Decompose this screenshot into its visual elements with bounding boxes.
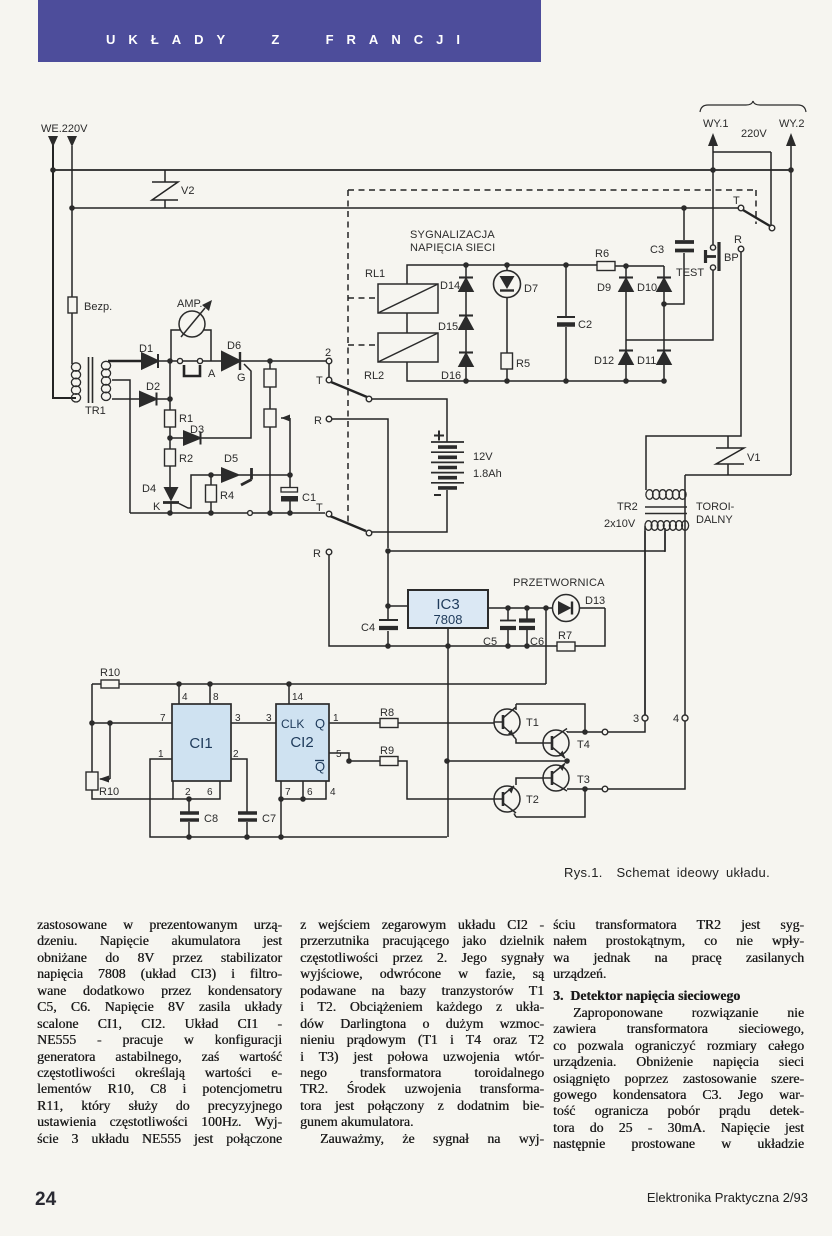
svg-text:D5: D5: [224, 453, 238, 465]
svg-text:6: 6: [207, 787, 213, 798]
svg-text:7808: 7808: [434, 612, 463, 627]
svg-text:C7: C7: [262, 813, 276, 825]
svg-text:K: K: [153, 501, 161, 513]
svg-text:IC3: IC3: [436, 596, 459, 613]
svg-text:Q: Q: [315, 716, 325, 731]
svg-text:BP: BP: [724, 252, 739, 264]
svg-text:G: G: [237, 372, 246, 384]
svg-text:Q: Q: [315, 759, 325, 774]
svg-text:T2: T2: [526, 794, 539, 806]
svg-text:T: T: [316, 502, 323, 514]
svg-text:8: 8: [213, 692, 219, 703]
svg-text:T4: T4: [577, 739, 590, 751]
svg-text:T: T: [733, 195, 740, 207]
svg-text:D10: D10: [637, 282, 657, 294]
svg-text:WE.220V: WE.220V: [41, 123, 88, 135]
svg-text:R4: R4: [220, 490, 234, 502]
svg-text:TEST: TEST: [676, 267, 704, 279]
svg-text:R8: R8: [380, 707, 394, 719]
svg-text:4: 4: [182, 692, 188, 703]
svg-text:R: R: [314, 415, 322, 427]
svg-text:6: 6: [307, 787, 313, 798]
svg-text:D7: D7: [524, 283, 538, 295]
svg-text:A: A: [208, 368, 216, 380]
svg-text:T3: T3: [577, 774, 590, 786]
svg-text:3: 3: [633, 713, 639, 725]
svg-text:4: 4: [330, 787, 336, 798]
svg-text:R7: R7: [558, 630, 572, 642]
svg-text:R: R: [734, 234, 742, 246]
svg-text:R10: R10: [99, 786, 119, 798]
svg-text:C2: C2: [578, 319, 592, 331]
svg-text:D15: D15: [438, 321, 458, 333]
svg-text:C5: C5: [483, 636, 497, 648]
svg-text:3: 3: [266, 713, 272, 724]
svg-text:D11: D11: [637, 355, 656, 367]
svg-text:D2: D2: [146, 381, 160, 393]
svg-text:2: 2: [325, 347, 331, 359]
svg-text:R10: R10: [100, 667, 120, 679]
svg-text:D16: D16: [441, 370, 461, 382]
svg-text:D14: D14: [440, 280, 460, 292]
svg-text:D13: D13: [585, 595, 605, 607]
svg-text:CI1: CI1: [189, 735, 212, 752]
svg-text:R6: R6: [595, 248, 609, 260]
svg-text:2: 2: [233, 749, 239, 760]
svg-text:D6: D6: [227, 340, 241, 352]
svg-text:NAPIĘCIA SIECI: NAPIĘCIA SIECI: [410, 242, 495, 254]
svg-text:R5: R5: [516, 358, 530, 370]
svg-text:C3: C3: [650, 244, 664, 256]
svg-text:1: 1: [158, 749, 164, 760]
svg-text:Bezp.: Bezp.: [84, 301, 112, 313]
svg-text:SYGNALIZACJA: SYGNALIZACJA: [410, 229, 495, 241]
svg-text:WY.1: WY.1: [703, 118, 728, 130]
svg-text:RL1: RL1: [365, 268, 385, 280]
svg-text:C1: C1: [302, 492, 316, 504]
svg-text:C6: C6: [530, 636, 544, 648]
svg-text:CLK: CLK: [281, 717, 304, 731]
svg-text:T1: T1: [526, 717, 539, 729]
svg-text:TR1: TR1: [85, 405, 106, 417]
svg-text:D1: D1: [139, 343, 153, 355]
svg-text:R2: R2: [179, 453, 193, 465]
svg-text:PRZETWORNICA: PRZETWORNICA: [513, 577, 605, 589]
svg-text:D9: D9: [597, 282, 611, 294]
svg-text:D4: D4: [142, 483, 156, 495]
svg-text:R: R: [313, 548, 321, 560]
svg-text:1: 1: [333, 713, 339, 724]
svg-text:AMP.: AMP.: [177, 298, 202, 310]
svg-text:7: 7: [285, 787, 291, 798]
svg-text:CI2: CI2: [290, 734, 313, 751]
svg-text:TOROI-: TOROI-: [696, 501, 735, 513]
svg-text:WY.2: WY.2: [779, 118, 804, 130]
svg-text:V1: V1: [747, 452, 760, 464]
svg-text:T: T: [316, 375, 323, 387]
svg-text:R9: R9: [380, 745, 394, 757]
svg-text:2: 2: [185, 787, 191, 798]
svg-text:TR2: TR2: [617, 501, 638, 513]
svg-text:7: 7: [160, 713, 166, 724]
svg-text:D3: D3: [190, 424, 204, 436]
svg-text:14: 14: [292, 692, 304, 703]
svg-text:4: 4: [673, 713, 679, 725]
svg-text:D12: D12: [594, 355, 614, 367]
svg-text:12V: 12V: [473, 451, 493, 463]
svg-text:3: 3: [235, 713, 241, 724]
svg-text:V2: V2: [181, 185, 194, 197]
svg-text:220V: 220V: [741, 128, 767, 140]
svg-text:5: 5: [336, 749, 342, 760]
svg-text:C4: C4: [361, 622, 375, 634]
svg-text:RL2: RL2: [364, 370, 384, 382]
svg-text:DALNY: DALNY: [696, 514, 733, 526]
svg-text:1.8Ah: 1.8Ah: [473, 468, 502, 480]
svg-text:C8: C8: [204, 813, 218, 825]
svg-text:2x10V: 2x10V: [604, 518, 636, 530]
